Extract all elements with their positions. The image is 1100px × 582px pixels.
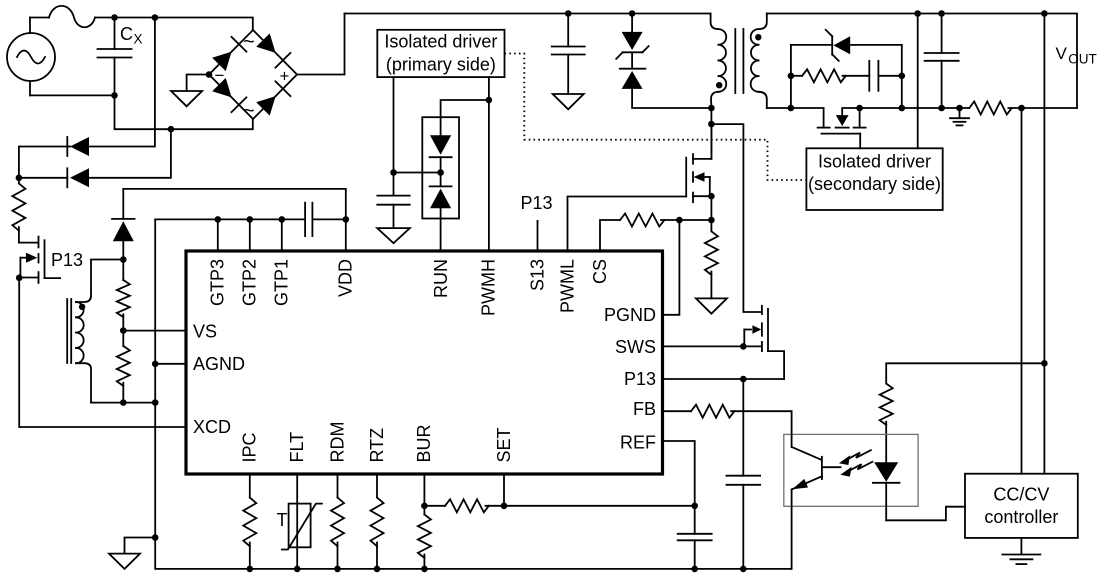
transformer T1 secondary phase dot bbox=[755, 34, 761, 40]
AC source V1 bbox=[7, 18, 55, 96]
wire P13 pin bbox=[663, 378, 785, 380]
wire aux winding top bbox=[91, 260, 123, 297]
diode D2 bbox=[19, 129, 171, 187]
svg-text:C: C bbox=[120, 24, 133, 44]
node RDM gnd bbox=[334, 566, 341, 573]
optocoupler U2 phototransistor bbox=[792, 411, 841, 569]
wire AGND bbox=[155, 363, 186, 365]
node REF cap gnd bbox=[691, 566, 698, 573]
aux winding phase dot bbox=[79, 304, 85, 310]
wire FB bbox=[663, 410, 692, 412]
diode D3 (VDD rectifier) bbox=[112, 189, 135, 260]
svg-text:P13: P13 bbox=[521, 193, 553, 213]
resistor R3 (divider lower) bbox=[117, 331, 130, 403]
wire secondary return right bbox=[860, 107, 970, 109]
transformer T1 core bbox=[735, 29, 743, 93]
wire top input to bridge bbox=[115, 18, 253, 31]
transformer T1 primary phase dot bbox=[716, 82, 722, 88]
IC U1 pin labels right bbox=[604, 305, 656, 453]
wire LED to CC/CV bbox=[886, 507, 965, 521]
wire RUN lead bbox=[440, 208, 442, 251]
node Q1 source sense bbox=[708, 217, 715, 224]
resistor R10 (IPC) bbox=[243, 474, 256, 569]
node bridge minus bbox=[206, 71, 213, 78]
node PWMH branch bbox=[486, 97, 493, 104]
transistor Q3 (SWS switch) bbox=[743, 306, 784, 379]
optocoupler U2 LED bbox=[873, 462, 900, 520]
svg-text:RDM: RDM bbox=[327, 422, 347, 463]
wire driver left lead bbox=[393, 77, 395, 196]
node input top diode branch bbox=[152, 14, 159, 21]
node Q1 drain branch bbox=[708, 121, 715, 128]
svg-text:GTP3: GTP3 bbox=[208, 259, 228, 306]
CC/CV signal ground bbox=[1002, 555, 1040, 565]
wire SET to REF bbox=[486, 505, 695, 507]
wire SWS bbox=[663, 345, 744, 347]
TVS clamp Z1 bbox=[616, 14, 711, 109]
node IPC gnd bbox=[247, 566, 254, 573]
svg-text:VDD: VDD bbox=[336, 259, 356, 297]
node Cx bottom bbox=[111, 92, 118, 99]
thermistor RT1 (FLT) bbox=[282, 474, 322, 569]
node rail output cap bbox=[938, 10, 945, 17]
node output cap return bbox=[938, 105, 945, 112]
GTP3 stub bbox=[217, 219, 219, 251]
wire snubber right down bbox=[901, 76, 903, 108]
node AGND pin bbox=[152, 361, 159, 368]
node divider bottom bbox=[120, 399, 127, 406]
node bottom input diode branch bbox=[168, 126, 175, 133]
node primary return TVS bbox=[708, 105, 715, 112]
capacitor C1 (GTP-VDD) bbox=[305, 203, 346, 236]
node shunt sense bbox=[1018, 105, 1025, 112]
CC/CV controller box bbox=[965, 474, 1078, 538]
node Q1 source bbox=[708, 193, 715, 200]
svg-text:OUT: OUT bbox=[1068, 52, 1097, 67]
transistor Q2 (sync rectifier) bbox=[818, 108, 866, 148]
wire Vout to CC/CV bbox=[1043, 14, 1045, 474]
wire bridge plus to top rail bbox=[297, 14, 345, 75]
svg-text:BUR: BUR bbox=[414, 424, 434, 462]
AGND vertical rail bbox=[155, 219, 791, 569]
bridge labels bbox=[215, 31, 290, 122]
node PGND riser bbox=[676, 217, 683, 224]
node VS bbox=[120, 327, 127, 334]
wire CC/CV ground bbox=[1020, 538, 1022, 554]
node rail driver supply bbox=[914, 10, 921, 17]
aux winding core bbox=[67, 299, 71, 363]
isolated driver secondary box bbox=[806, 148, 942, 210]
wire snubber left bbox=[790, 45, 792, 108]
node clamp mid bbox=[437, 169, 444, 176]
wire REF bbox=[663, 441, 695, 534]
svg-text:RTZ: RTZ bbox=[367, 428, 387, 463]
svg-text:controller: controller bbox=[984, 507, 1058, 527]
svg-text:~: ~ bbox=[243, 31, 255, 53]
optocoupler U2 box bbox=[784, 434, 918, 506]
svg-text:Isolated driver: Isolated driver bbox=[818, 152, 931, 172]
capacitor C7 (REF) bbox=[678, 534, 712, 569]
svg-text:XCD: XCD bbox=[193, 417, 231, 437]
capacitor C6 (P13) bbox=[727, 379, 761, 569]
ground bottom-left bbox=[109, 554, 140, 569]
wire Q1 source down bbox=[710, 196, 712, 220]
wire to SWS mosfet drain bbox=[711, 124, 762, 312]
node rail CC/CV sense bbox=[1041, 10, 1048, 17]
svg-text:S13: S13 bbox=[527, 259, 547, 291]
diode D1 bbox=[19, 137, 89, 178]
node D3 anode bbox=[120, 256, 127, 263]
optocoupler U2 light arrows bbox=[839, 450, 872, 476]
label CX bbox=[120, 24, 143, 46]
resistor R2 (divider upper) bbox=[117, 260, 130, 331]
svg-text:T: T bbox=[277, 510, 288, 530]
node secondary ground tap bbox=[956, 105, 963, 112]
dotted control link primary bbox=[505, 54, 807, 181]
node BUR gnd bbox=[421, 566, 428, 573]
wire BUR stub bbox=[423, 474, 425, 515]
svg-text:GTP1: GTP1 bbox=[272, 259, 292, 306]
svg-text:VS: VS bbox=[193, 322, 217, 342]
resistor R14 (BUR-SET) bbox=[424, 499, 488, 512]
svg-text:V: V bbox=[1056, 44, 1068, 63]
resistor R12 (RTZ) bbox=[371, 474, 384, 569]
node D1/D2 junction bbox=[16, 175, 23, 182]
zener D6 bbox=[791, 30, 902, 76]
clamp diode box bbox=[422, 117, 459, 218]
svg-text:P13: P13 bbox=[624, 369, 656, 389]
wire VS bbox=[123, 330, 186, 332]
wire D3 to VDD bbox=[123, 189, 345, 251]
aux winding L1 bbox=[76, 296, 91, 403]
capacitor C4 (snubber) bbox=[869, 61, 902, 91]
svg-text:Isolated driver: Isolated driver bbox=[384, 32, 497, 52]
svg-text:CS: CS bbox=[590, 259, 610, 284]
node driver mid bbox=[390, 169, 397, 176]
wire bridge minus to ground bbox=[187, 75, 209, 92]
svg-text:REF: REF bbox=[620, 432, 656, 452]
svg-text:P13: P13 bbox=[51, 250, 83, 270]
node snubber RC right bbox=[899, 73, 906, 80]
svg-text:X: X bbox=[134, 32, 143, 47]
GTP1 stub bbox=[281, 219, 283, 251]
node rail TVS bbox=[629, 10, 636, 17]
ground at C2 bbox=[377, 228, 410, 243]
svg-text:CC/CV: CC/CV bbox=[993, 485, 1049, 505]
IC U1 pin labels left bbox=[193, 322, 245, 438]
node input top Cx bbox=[111, 14, 118, 21]
wire aux bottom bbox=[91, 402, 155, 404]
isolated driver primary box bbox=[377, 30, 504, 77]
wire PWML to Q1 gate bbox=[568, 197, 687, 252]
wire to diode D1 bbox=[89, 18, 155, 147]
svg-text:PWMH: PWMH bbox=[479, 259, 499, 316]
svg-text:IPC: IPC bbox=[240, 432, 260, 462]
resistor R6 (snubber) bbox=[791, 69, 869, 82]
wire PWMH to clamp top bbox=[441, 100, 489, 135]
svg-text:PWML: PWML bbox=[557, 259, 577, 313]
wire primary return down bbox=[710, 108, 712, 159]
wire opto feed bbox=[886, 363, 1044, 383]
diode D4 (clamp upper) bbox=[430, 135, 452, 172]
node snubber right return bbox=[899, 105, 906, 112]
node SET bbox=[501, 503, 508, 510]
node rail C3 bbox=[565, 10, 572, 17]
resistor R7 (current shunt) bbox=[969, 102, 1077, 115]
node aux return bbox=[152, 399, 159, 406]
wire secondary top rail bbox=[767, 14, 1077, 109]
svg-text:~: ~ bbox=[243, 100, 255, 122]
svg-text:RUN: RUN bbox=[431, 259, 451, 298]
svg-text:FB: FB bbox=[633, 399, 656, 419]
wire PGND bbox=[663, 220, 680, 315]
wire CS bbox=[600, 220, 620, 251]
resistor R11 (RDM) bbox=[331, 474, 344, 569]
capacitor C5 (output) bbox=[925, 14, 959, 109]
ground at C3 bbox=[553, 94, 584, 109]
capacitor C3 bbox=[552, 14, 585, 95]
resistor R5 (sense to gnd) bbox=[705, 220, 718, 298]
wire bottom input bbox=[30, 95, 253, 129]
wire GTP rail bbox=[155, 218, 305, 220]
wire to ground bottom-left bbox=[125, 538, 156, 554]
transistor Q1 (primary switch) bbox=[686, 124, 711, 202]
node P13 cap branch bbox=[740, 376, 747, 383]
ground at R5 bbox=[696, 298, 727, 313]
wire secondary return left bbox=[767, 107, 824, 109]
label VOUT bbox=[1056, 44, 1097, 67]
svg-text:(primary side): (primary side) bbox=[386, 55, 496, 75]
svg-text:GTP2: GTP2 bbox=[240, 259, 260, 306]
svg-text:FLT: FLT bbox=[287, 432, 307, 463]
node REF/SET bbox=[691, 503, 698, 510]
svg-text:+: + bbox=[280, 66, 290, 85]
wire driver supply bbox=[917, 14, 919, 149]
capacitor C2 bbox=[377, 196, 409, 229]
transistor P13 (depletion MOSFET) bbox=[19, 237, 60, 283]
transformer T1 secondary winding bbox=[751, 14, 767, 109]
node opto feed branch bbox=[1041, 360, 1048, 367]
svg-text:(secondary side): (secondary side) bbox=[808, 174, 941, 194]
IC U1 body bbox=[186, 251, 663, 474]
wire driver mid link bbox=[394, 172, 441, 174]
resistor R8 (opto LED) bbox=[880, 384, 893, 463]
resistor R1 bbox=[12, 178, 37, 243]
svg-text:SET: SET bbox=[494, 427, 514, 462]
secondary signal ground bbox=[950, 108, 969, 125]
node FLT gnd bbox=[294, 566, 301, 573]
node RTZ gnd bbox=[374, 566, 381, 573]
S13 stub bbox=[537, 221, 539, 251]
capacitor CX bbox=[98, 18, 132, 96]
GTP2 stub bbox=[249, 219, 251, 251]
node FB cap gnd bbox=[740, 566, 747, 573]
IC U1 pin labels bottom bbox=[240, 422, 514, 463]
wire shunt to CC/CV bbox=[1021, 108, 1023, 474]
node snubber RC left bbox=[788, 73, 795, 80]
fuse/filter element F1 bbox=[30, 6, 115, 27]
wire primary top rail bbox=[345, 13, 711, 15]
bridge rectifier BR1 bbox=[209, 30, 297, 119]
ground at bridge bbox=[171, 91, 202, 106]
IC U1 pin labels top bbox=[208, 259, 610, 316]
svg-text:PGND: PGND bbox=[604, 305, 656, 325]
node Q2 drain bbox=[856, 105, 863, 112]
node BUR bbox=[421, 503, 428, 510]
resistor R13 (BUR lower) bbox=[418, 515, 431, 569]
node ground stub bbox=[152, 534, 159, 541]
diode D5 (clamp lower) bbox=[430, 173, 452, 209]
wire XCD left bbox=[19, 278, 186, 427]
node snubber left return bbox=[788, 105, 795, 112]
resistor R4 (CS) bbox=[620, 214, 711, 227]
wire SET stub bbox=[503, 474, 505, 506]
node P13 source bbox=[16, 275, 23, 282]
wire driver right lead PWMH bbox=[488, 77, 490, 251]
svg-text:SWS: SWS bbox=[615, 337, 656, 357]
node VDD rail bbox=[343, 216, 350, 223]
svg-text:−: − bbox=[215, 66, 225, 85]
node SWS bbox=[740, 343, 747, 350]
resistor R9 (FB) bbox=[691, 405, 792, 418]
transformer T1 primary winding bbox=[711, 14, 727, 109]
svg-text:AGND: AGND bbox=[193, 354, 245, 374]
